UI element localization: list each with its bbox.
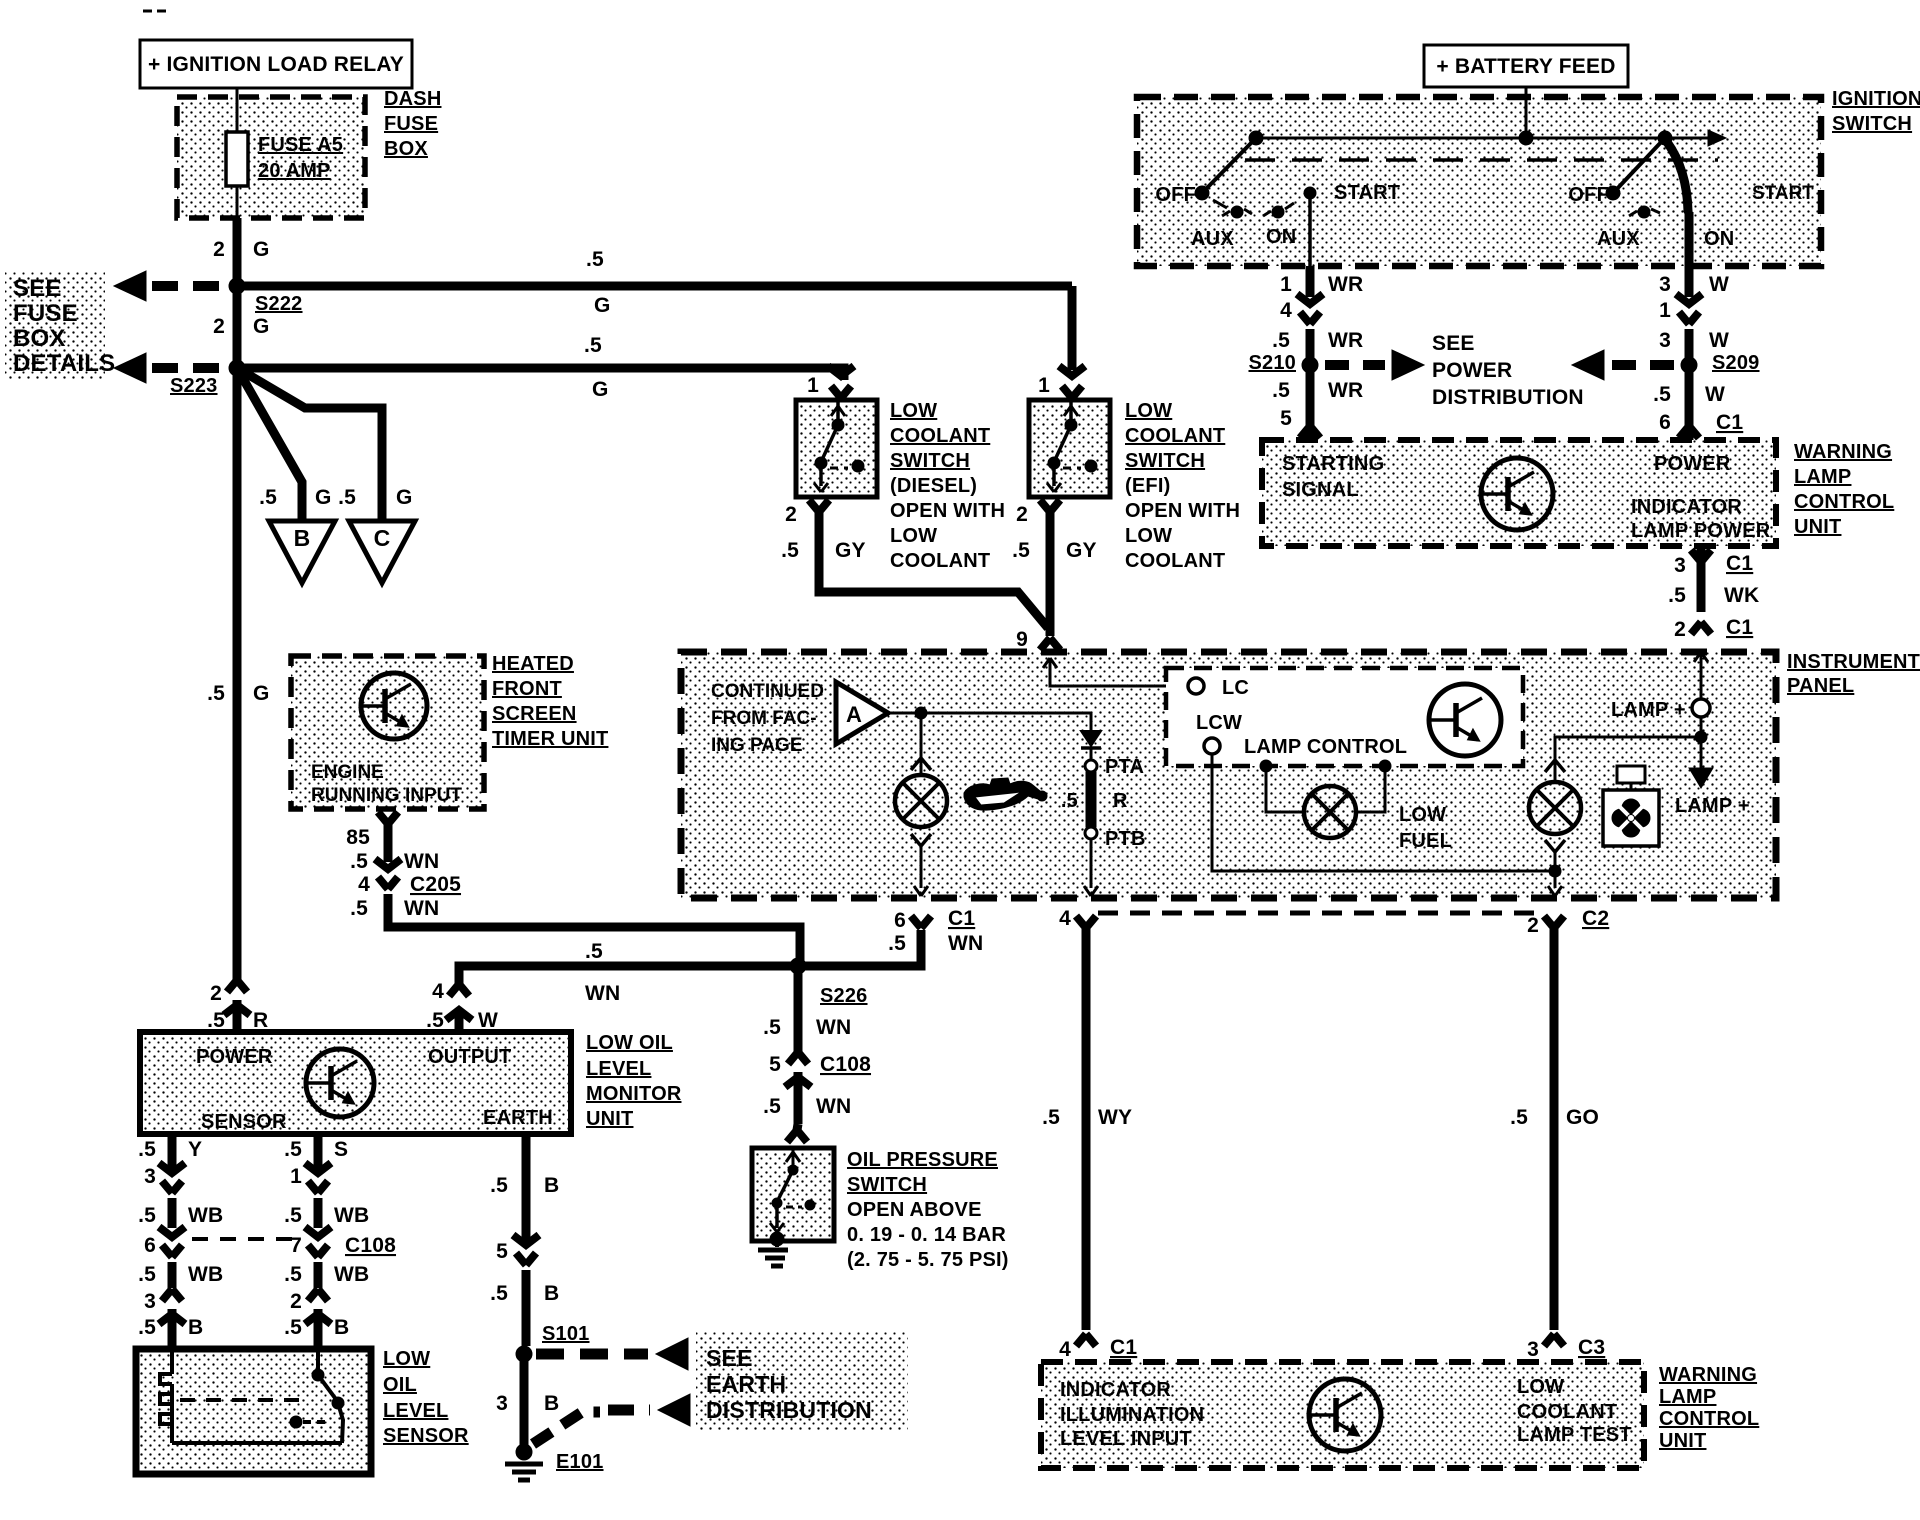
svg-text:SWITCH: SWITCH (1125, 450, 1205, 472)
svg-text:5: 5 (496, 1240, 508, 1263)
connector C108 dashed line (192, 1234, 396, 1257)
svg-text:Y: Y (188, 1138, 202, 1161)
transistor (warning lamp power) (1481, 458, 1553, 530)
svg-text:3: 3 (1674, 554, 1686, 577)
svg-text:UNIT: UNIT (1659, 1430, 1706, 1452)
svg-text:PTA: PTA (1105, 756, 1144, 778)
dashed arrow S101 to earth distribution (536, 1338, 688, 1370)
warning lamp control unit box (top) (1262, 440, 1776, 546)
svg-text:.5: .5 (490, 1282, 508, 1305)
svg-text:C1: C1 (1726, 616, 1753, 639)
heated front screen timer unit box (291, 656, 484, 809)
svg-text:FRONT: FRONT (492, 678, 562, 700)
svg-text:2: 2 (1016, 503, 1028, 526)
svg-text:1: 1 (1280, 273, 1292, 296)
wire EFI GY down .5 GY (1012, 512, 1097, 628)
svg-text:.5: .5 (284, 1204, 302, 1227)
svg-text:.5: .5 (1653, 383, 1671, 406)
warning lamp control unit box (bottom) (1041, 1362, 1644, 1468)
svg-text:20 AMP: 20 AMP (258, 160, 331, 182)
svg-text:BOX: BOX (384, 138, 428, 160)
svg-text:HEATED: HEATED (492, 653, 574, 675)
wire low coolant lamp down (1545, 840, 1565, 896)
svg-text:C2: C2 (1582, 907, 1609, 930)
svg-text:EARTH: EARTH (706, 1371, 786, 1397)
low oil level sensor box (136, 1349, 371, 1474)
wire S223 down to diesel switch pin 1 (807, 366, 854, 398)
svg-text:.5: .5 (138, 1204, 156, 1227)
svg-text:.5: .5 (426, 1009, 444, 1032)
svg-text:.5: .5 (338, 486, 356, 509)
svg-text:C108: C108 (345, 1234, 396, 1257)
svg-text:FUSE A5: FUSE A5 (258, 134, 343, 156)
svg-text:.5: .5 (584, 334, 602, 357)
svg-text:LOW OIL: LOW OIL (586, 1032, 673, 1054)
sensor resistive element (160, 1349, 342, 1443)
wire LCW down and across (1212, 754, 1549, 871)
svg-text:SEE: SEE (706, 1345, 753, 1371)
svg-text:LEVEL: LEVEL (383, 1400, 448, 1422)
oil pressure switch connector (787, 1124, 807, 1142)
transistor (lamp control) (1429, 684, 1501, 756)
oil warning lamp (895, 775, 947, 827)
svg-text:ENGINE: ENGINE (311, 762, 384, 783)
svg-text:WN: WN (816, 1095, 851, 1118)
wire S226 down .5 WN (763, 966, 851, 1052)
connector C1 pin 4 below panel (1042, 907, 1132, 1330)
oil can icon (964, 778, 1047, 810)
svg-text:.5: .5 (350, 850, 368, 873)
svg-text:POWER: POWER (1654, 453, 1731, 475)
svg-text:S209: S209 (1712, 352, 1760, 374)
svg-text:OIL: OIL (383, 1374, 417, 1396)
diesel switch contacts (814, 400, 864, 492)
connector pin 2 below EFI switch (1016, 500, 1060, 526)
wire diesel GY down .5 GY (781, 512, 1048, 628)
svg-text:SCREEN: SCREEN (492, 703, 577, 725)
inner module dashed edge (1098, 911, 1541, 916)
svg-text:AUX: AUX (1597, 228, 1640, 250)
right switch labels (1568, 183, 1814, 250)
svg-text:1: 1 (290, 1165, 302, 1188)
svg-text:ING PAGE: ING PAGE (711, 735, 803, 756)
svg-text:OPEN WITH: OPEN WITH (1125, 500, 1240, 522)
svg-text:PANEL: PANEL (1787, 675, 1854, 697)
dashed arrow S210 to power distribution (1325, 350, 1424, 380)
svg-text:S101: S101 (542, 1323, 590, 1345)
svg-text:.5: .5 (585, 940, 603, 963)
svg-text:UNIT: UNIT (586, 1108, 633, 1130)
svg-text:DETAILS: DETAILS (13, 350, 115, 377)
wire S223 down to power input .5 G (207, 368, 269, 986)
wire sensor right .5 S (284, 1134, 348, 1168)
ignition switch box (1137, 97, 1821, 266)
svg-text:STARTING: STARTING (1282, 453, 1384, 475)
instrument panel labels (1787, 651, 1920, 697)
battery feed label box (1424, 45, 1628, 87)
lamp+ terminal top (1611, 652, 1710, 721)
printed resistor PTA-PTB .5 R (1085, 760, 1097, 772)
wire fuse to S222, 2 G (213, 218, 269, 286)
svg-text:.5: .5 (259, 486, 277, 509)
svg-text:WN: WN (948, 932, 983, 955)
svg-text:OIL PRESSURE: OIL PRESSURE (847, 1149, 998, 1171)
svg-text:LOW: LOW (1517, 1376, 1564, 1398)
connector 9 into instrument panel (1016, 628, 1060, 651)
right switch blade and contacts (1606, 138, 1688, 218)
svg-text:.5: .5 (1272, 379, 1290, 402)
svg-text:SEE: SEE (1432, 332, 1475, 355)
wire to oil warning lamp (911, 713, 931, 774)
svg-text:C3: C3 (1578, 1336, 1605, 1359)
label .5 W and pin 6 C1 (1653, 383, 1743, 438)
svg-text:+ BATTERY FEED: + BATTERY FEED (1436, 55, 1615, 78)
svg-text:3: 3 (144, 1165, 156, 1188)
svg-text:UNIT: UNIT (1794, 516, 1841, 538)
connector pin 1 right (290, 1163, 331, 1228)
see power distribution note (1432, 332, 1584, 409)
diode (1081, 713, 1101, 760)
svg-text:.5: .5 (1061, 790, 1078, 812)
svg-text:COOLANT: COOLANT (890, 550, 990, 572)
svg-text:INSTRUMENT: INSTRUMENT (1787, 651, 1920, 673)
svg-text:WK: WK (1724, 584, 1759, 607)
page corner mark (143, 10, 166, 13)
svg-text:7: 7 (290, 1234, 302, 1257)
svg-text:2: 2 (1527, 914, 1539, 937)
svg-text:LOW: LOW (1125, 525, 1172, 547)
svg-text:2: 2 (213, 315, 225, 338)
svg-text:S222: S222 (255, 293, 303, 315)
svg-text:C205: C205 (410, 873, 461, 896)
svg-text:OFF: OFF (1568, 184, 1609, 206)
svg-text:2: 2 (210, 982, 222, 1005)
svg-text:POWER: POWER (1432, 359, 1512, 382)
dashed arrow to fuse box details (S223) (114, 353, 237, 383)
connector C1 pin 4 into indicator box (1059, 1334, 1137, 1361)
svg-text:DISTRIBUTION: DISTRIBUTION (1432, 386, 1584, 409)
left switch labels (1155, 182, 1400, 250)
svg-text:WARNING: WARNING (1659, 1364, 1757, 1386)
svg-text:C: C (374, 525, 391, 551)
wire engine running output pin 85 .5 WN (346, 812, 439, 873)
label .5 WR and pin 5 (1272, 379, 1363, 438)
svg-text:.5: .5 (350, 897, 368, 920)
svg-text:WN: WN (404, 897, 439, 920)
svg-text:INDICATOR: INDICATOR (1631, 496, 1742, 518)
svg-text:LAMP +: LAMP + (1611, 699, 1686, 721)
svg-text:B: B (294, 525, 311, 551)
svg-text:6: 6 (1659, 411, 1671, 434)
wire S223 to triangle B .5 G (237, 368, 332, 519)
left switch blade and contacts (1195, 138, 1316, 218)
node S101 junction (516, 1323, 590, 1362)
svg-text:LCW: LCW (1196, 712, 1242, 734)
svg-text:C1: C1 (1726, 552, 1753, 575)
svg-text:.5: .5 (284, 1138, 302, 1161)
connector C1 pin 2 above panel (1674, 616, 1753, 641)
ignition switch labels (1832, 88, 1920, 135)
svg-text:3: 3 (1527, 1338, 1539, 1361)
svg-text:LAMP POWER: LAMP POWER (1631, 520, 1771, 542)
wire ignition on down 3 W (1659, 266, 1729, 297)
connector C205 pin 4 (350, 859, 800, 966)
EFI switch labels (1125, 400, 1240, 572)
svg-text:COOLANT: COOLANT (1125, 425, 1225, 447)
dashed arrow S209 to power distribution (1572, 350, 1674, 380)
svg-text:LAMP TEST: LAMP TEST (1517, 1424, 1632, 1446)
wire 9 to LC (1043, 658, 1188, 686)
svg-text:WN: WN (404, 850, 439, 873)
svg-text:.5: .5 (207, 1009, 225, 1032)
svg-text:G: G (253, 315, 270, 338)
low oil level sensor labels (383, 1348, 469, 1447)
oil pressure switch labels (847, 1149, 1009, 1271)
svg-text:5: 5 (1280, 407, 1292, 430)
svg-text:(2. 75 - 5. 75 PSI): (2. 75 - 5. 75 PSI) (847, 1249, 1009, 1271)
labels .5 WB row1 (138, 1204, 369, 1227)
connector pin 1 (S209 wire) (1659, 294, 1729, 440)
svg-text:DISTRIBUTION: DISTRIBUTION (706, 1397, 872, 1423)
svg-text:CONTROL: CONTROL (1794, 491, 1894, 513)
svg-text:A: A (846, 702, 862, 727)
svg-text:G: G (592, 378, 609, 401)
svg-text:PTB: PTB (1105, 828, 1146, 850)
EFI switch contacts (1047, 400, 1097, 492)
svg-text:2: 2 (290, 1290, 302, 1313)
connector pin 2 lower right (290, 1289, 331, 1349)
sensor switch blade (290, 1349, 344, 1443)
wire S222 to S223, 2 G (213, 286, 269, 368)
svg-text:COOLANT: COOLANT (1125, 550, 1225, 572)
wire sensor left .5 Y (138, 1134, 202, 1168)
ignition dashed link line (1245, 158, 1718, 162)
lamp control label (1244, 736, 1407, 758)
svg-text:.5: .5 (1668, 584, 1686, 607)
svg-text:BOX: BOX (13, 325, 66, 352)
connector pin 3 left (144, 1163, 185, 1228)
svg-text:POWER: POWER (196, 1046, 273, 1068)
wire S223 bus right .5 G (237, 334, 844, 401)
svg-text:SENSOR: SENSOR (383, 1425, 469, 1447)
svg-text:CONTINUED: CONTINUED (711, 681, 824, 702)
connector pin 3 lower left (144, 1289, 185, 1349)
low fuel lamp (1304, 786, 1452, 852)
svg-text:OPEN ABOVE: OPEN ABOVE (847, 1199, 982, 1221)
wire S222 bus right .5 G (237, 248, 1072, 317)
ignition bus wire (1249, 130, 1726, 146)
terminal LC (1188, 677, 1249, 699)
ignition load relay label box (140, 40, 412, 88)
svg-text:S: S (334, 1138, 348, 1161)
svg-text:G: G (315, 486, 332, 509)
svg-text:.5: .5 (207, 682, 225, 705)
svg-text:FUSE: FUSE (13, 300, 78, 327)
svg-text:R: R (253, 1009, 268, 1032)
svg-text:RUNNING INPUT: RUNNING INPUT (311, 785, 462, 806)
svg-text:SWITCH: SWITCH (890, 450, 970, 472)
svg-text:COOLANT: COOLANT (1517, 1401, 1617, 1423)
svg-text:LEVEL: LEVEL (586, 1058, 651, 1080)
svg-text:.5: .5 (1272, 329, 1290, 352)
svg-text:.5: .5 (138, 1138, 156, 1161)
dashed arrow to fuse box details (S222) (114, 271, 237, 301)
labels .5 WB row2 (138, 1263, 369, 1286)
see earth distribution note (706, 1345, 872, 1423)
svg-text:W: W (1705, 383, 1725, 406)
transistor (lamp test) (1309, 1379, 1381, 1451)
svg-text:R: R (1113, 790, 1128, 812)
svg-text:ON: ON (1266, 226, 1296, 248)
battery feed wire (1525, 87, 1528, 138)
connector C3 pin 3 into indicator box (1527, 1334, 1605, 1361)
svg-text:6: 6 (894, 909, 906, 932)
svg-text:GY: GY (835, 539, 866, 562)
svg-text:LOW: LOW (890, 525, 937, 547)
dash fuse box name labels (384, 88, 441, 160)
svg-text:OUTPUT: OUTPUT (428, 1046, 511, 1068)
svg-text:W: W (478, 1009, 498, 1032)
svg-text:3: 3 (144, 1290, 156, 1313)
svg-text:WR: WR (1328, 379, 1363, 402)
low coolant switch (EFI) box (1029, 400, 1110, 497)
svg-text:COOLANT: COOLANT (890, 425, 990, 447)
svg-text:C1: C1 (1110, 1336, 1137, 1359)
svg-text:9: 9 (1016, 628, 1028, 651)
connector pin 7 right (290, 1227, 331, 1288)
svg-text:TIMER UNIT: TIMER UNIT (492, 728, 608, 750)
off-page connector triangle B (269, 521, 335, 583)
right on wire (1685, 212, 1694, 266)
svg-text:B: B (544, 1282, 559, 1305)
wire ignition start down 1 WR (1280, 266, 1363, 297)
svg-text:4: 4 (1059, 1338, 1071, 1361)
svg-text:WR: WR (1328, 329, 1363, 352)
svg-text:SEE: SEE (13, 275, 62, 302)
warning lamp control unit labels (top) (1794, 441, 1894, 538)
svg-text:WY: WY (1098, 1106, 1132, 1129)
svg-text:.5: .5 (138, 1263, 156, 1286)
connector pin 2 below diesel switch (785, 500, 829, 526)
svg-text:SIGNAL: SIGNAL (1282, 479, 1359, 501)
low coolant warning lamp (1529, 782, 1581, 834)
lamp control box (1166, 668, 1523, 766)
svg-text:FUEL: FUEL (1399, 830, 1452, 852)
low fuel lamp wiring (1260, 760, 1391, 812)
svg-text:2: 2 (1674, 618, 1686, 641)
node S223 junction (170, 360, 245, 397)
svg-text:G: G (594, 294, 611, 317)
ground E101 (505, 1444, 604, 1480)
svg-text:S223: S223 (170, 375, 218, 397)
wire output pin 4 .5 W (426, 966, 798, 1032)
transistor (engine running input) (361, 673, 427, 739)
node S226 junction (790, 958, 868, 1007)
connector pin 5 earth (490, 1235, 559, 1346)
dash fuse box (dashed, shaded) (177, 97, 365, 218)
svg-text:B: B (544, 1174, 559, 1197)
svg-text:B: B (334, 1316, 349, 1339)
wire earth .5 B (490, 1134, 559, 1240)
svg-text:LC: LC (1222, 677, 1249, 699)
svg-text:.5: .5 (1510, 1106, 1528, 1129)
svg-text:INDICATOR: INDICATOR (1060, 1379, 1171, 1401)
node S222 junction (229, 278, 303, 315)
svg-text:WN: WN (816, 1016, 851, 1039)
svg-text:.5: .5 (781, 539, 799, 562)
terminal LCW (1196, 712, 1242, 754)
svg-text:LOW: LOW (383, 1348, 430, 1370)
svg-text:AUX: AUX (1191, 228, 1234, 250)
wire lamp to C1 pin 6 (911, 834, 931, 896)
svg-text:S226: S226 (820, 985, 868, 1007)
svg-text:G: G (253, 238, 270, 261)
fuse A5 20 AMP (226, 88, 343, 218)
svg-text:DASH: DASH (384, 88, 441, 110)
wire to low coolant lamp (1545, 737, 1701, 781)
svg-text:WARNING: WARNING (1794, 441, 1892, 463)
svg-text:WN: WN (585, 982, 620, 1005)
svg-text:SWITCH: SWITCH (847, 1174, 927, 1196)
connector C1 pin 3 below warning unit (1668, 546, 1759, 612)
svg-text:.5: .5 (586, 248, 604, 271)
illumination fan symbol (1603, 766, 1659, 846)
svg-text:G: G (253, 682, 270, 705)
svg-text:.5: .5 (1042, 1106, 1060, 1129)
svg-text:4: 4 (1059, 907, 1071, 930)
svg-text:+ IGNITION LOAD RELAY: + IGNITION LOAD RELAY (148, 53, 404, 76)
svg-text:SWITCH: SWITCH (1832, 113, 1912, 135)
svg-text:.5: .5 (284, 1263, 302, 1286)
svg-text:OPEN WITH: OPEN WITH (890, 500, 1005, 522)
svg-text:(EFI): (EFI) (1125, 475, 1170, 497)
svg-text:E101: E101 (556, 1451, 604, 1473)
oil pressure switch ground (758, 1232, 788, 1266)
svg-text:GY: GY (1066, 539, 1097, 562)
connector C2 pin 2 below panel (1510, 907, 1609, 1330)
svg-text:GO: GO (1566, 1106, 1599, 1129)
svg-text:START: START (1752, 183, 1814, 204)
svg-text:FROM FAC-: FROM FAC- (711, 708, 817, 729)
svg-text:LAMP +: LAMP + (1675, 795, 1750, 817)
low oil level monitor unit box (140, 1032, 571, 1134)
svg-text:.5: .5 (138, 1316, 156, 1339)
svg-text:1: 1 (1038, 374, 1050, 397)
svg-text:WB: WB (188, 1204, 223, 1227)
connector pin 4 (S210 wire) (1272, 294, 1363, 440)
off-page triangle A (836, 682, 888, 744)
wire PTB down to C1 pin 4 (1084, 839, 1098, 896)
svg-text:WR: WR (1328, 273, 1363, 296)
svg-text:ON: ON (1704, 228, 1734, 250)
svg-text:4: 4 (358, 873, 370, 896)
svg-text:.5: .5 (284, 1316, 302, 1339)
node S210 junction (1248, 352, 1318, 374)
svg-text:ILLUMINATION: ILLUMINATION (1060, 1404, 1204, 1426)
continued from facing page note (711, 681, 824, 756)
svg-text:2: 2 (213, 238, 225, 261)
svg-text:.5: .5 (490, 1174, 508, 1197)
svg-text:.5: .5 (1012, 539, 1030, 562)
instrument panel box (681, 652, 1776, 898)
svg-text:WB: WB (334, 1204, 369, 1227)
warning lamp control unit labels (bottom) (1659, 1364, 1759, 1452)
svg-text:C108: C108 (820, 1053, 871, 1076)
wire S226 to C1 pin 6 .5 WN (798, 907, 983, 966)
svg-text:2: 2 (785, 503, 797, 526)
svg-text:G: G (396, 486, 413, 509)
svg-text:MONITOR: MONITOR (586, 1083, 682, 1105)
